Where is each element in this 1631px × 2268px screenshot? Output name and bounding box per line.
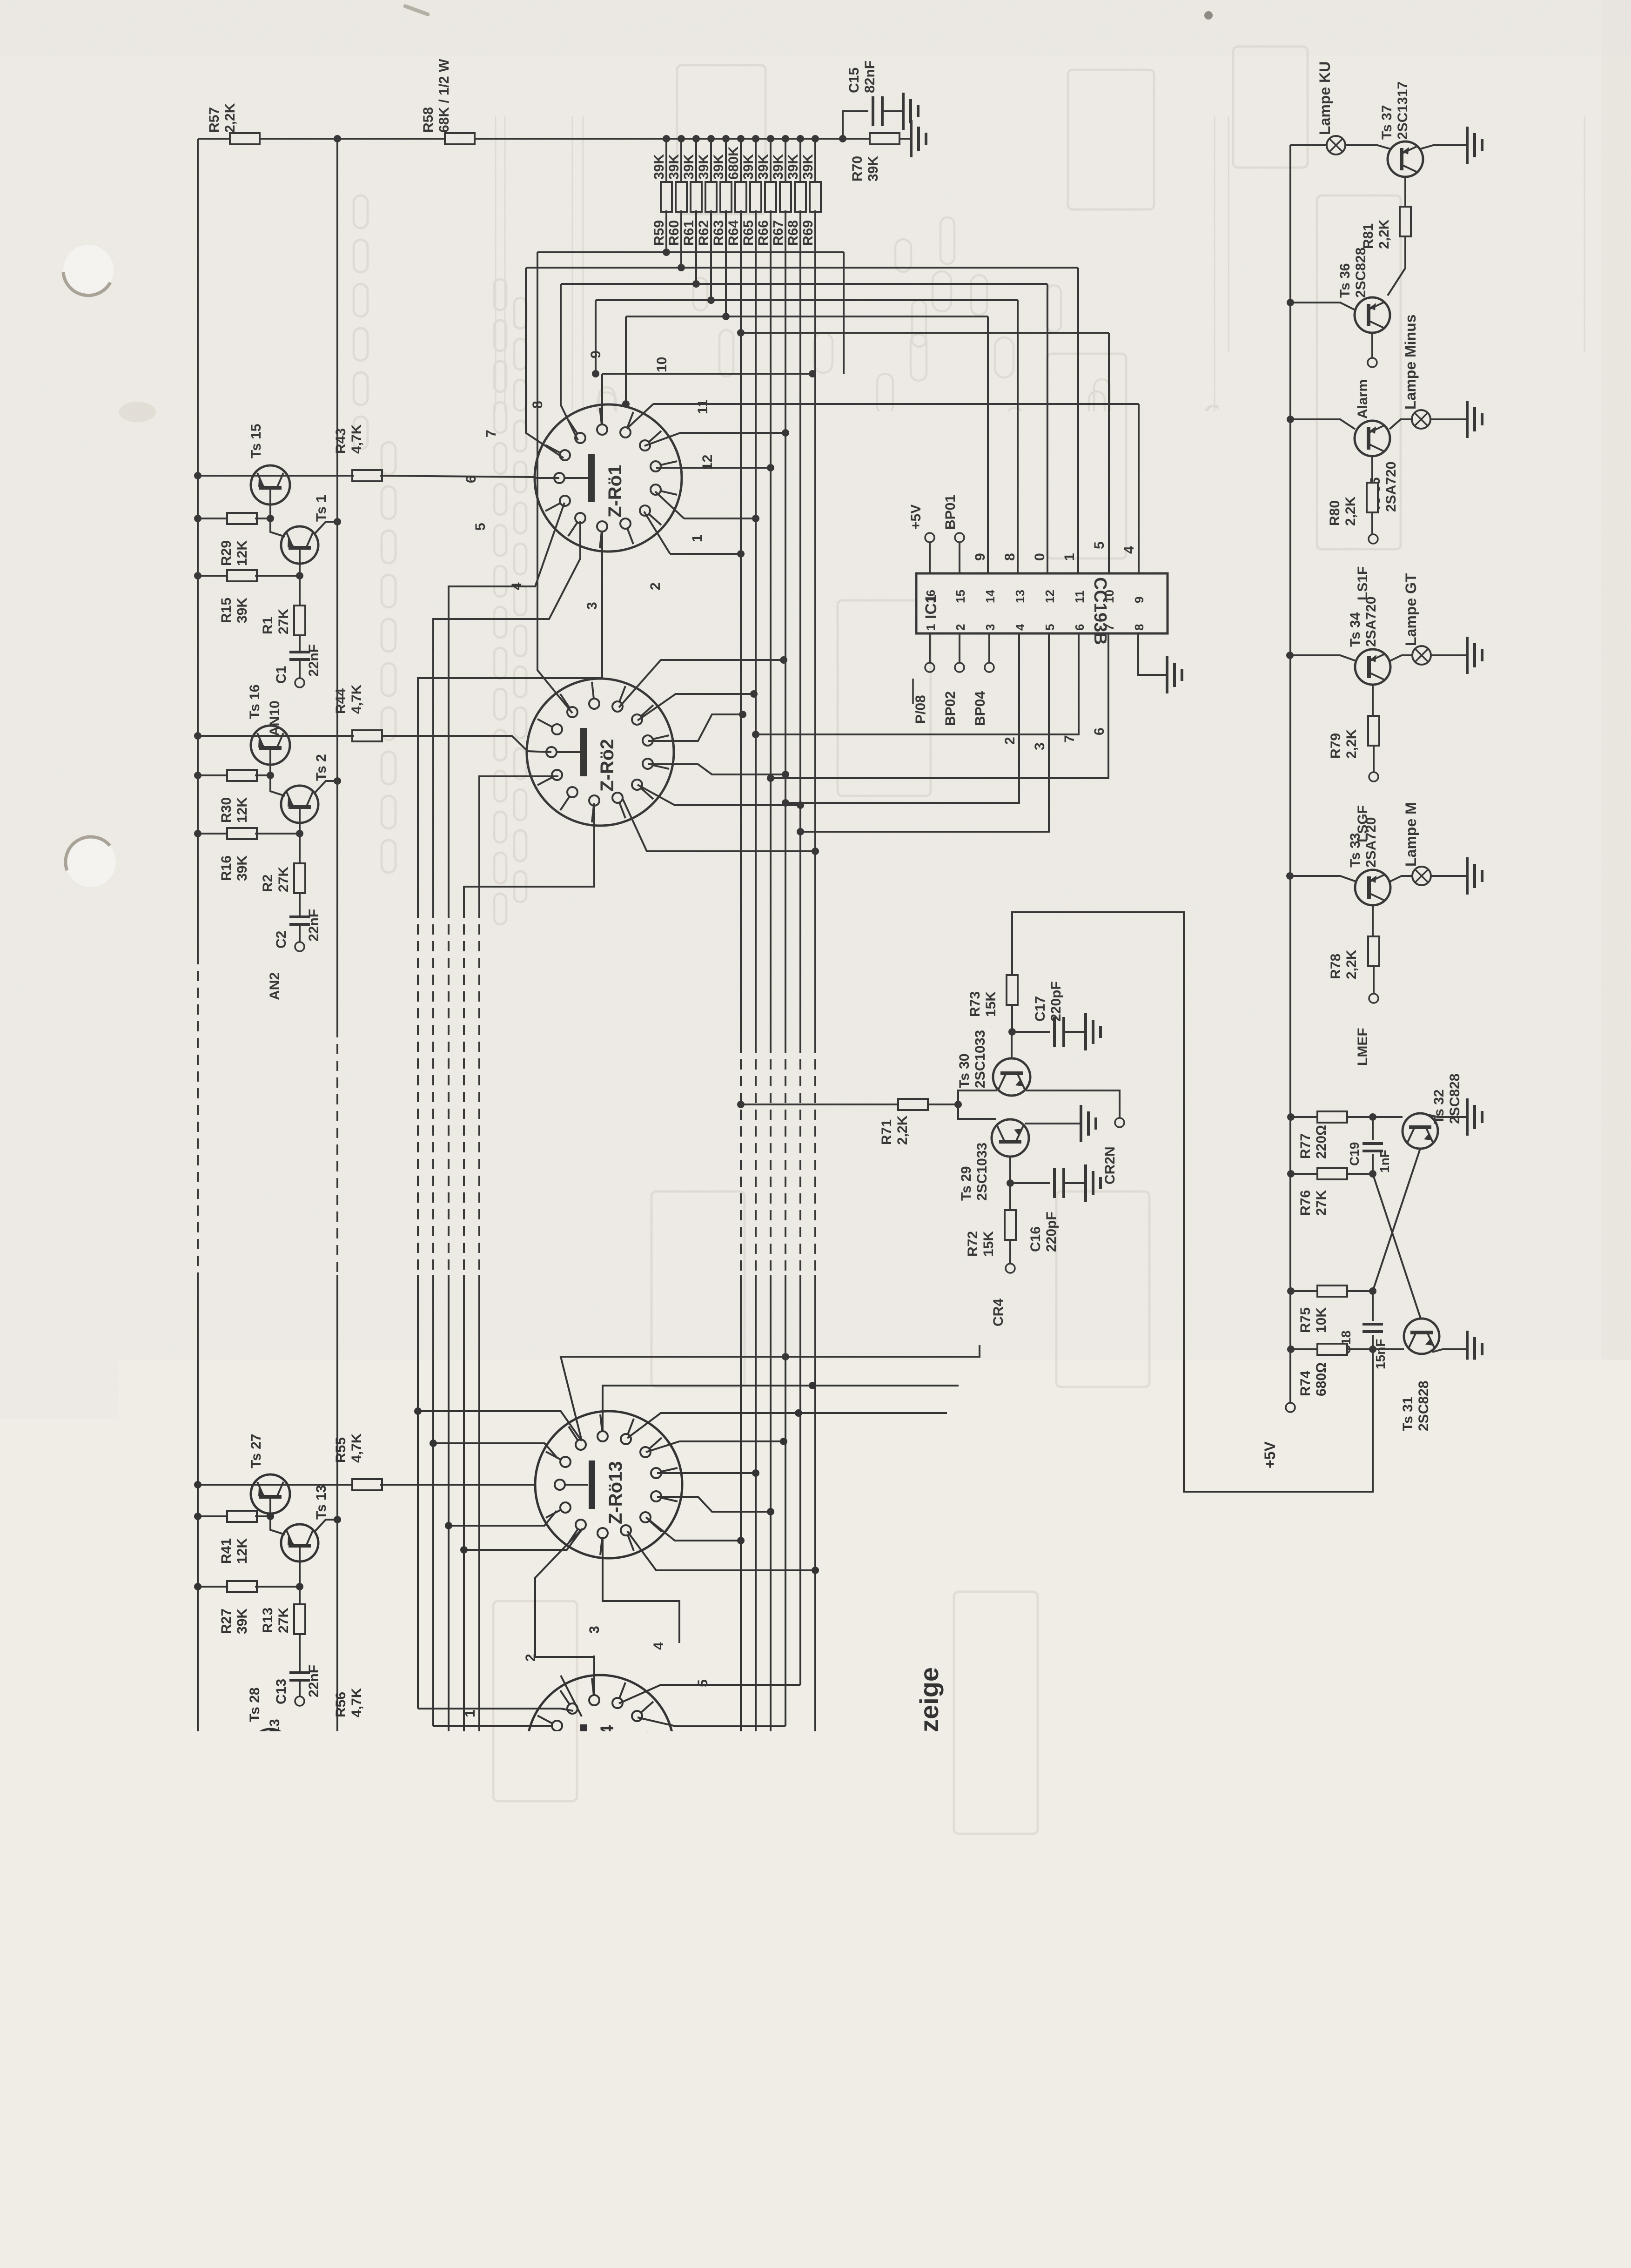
wire C15 to ground [882,110,902,112]
wire rail to R41 [194,1513,227,1520]
wire left bus x964 dashed [448,908,450,1275]
capacitor C15 [846,61,882,126]
transistor Q Ts30 [957,1030,1030,1096]
tube Z-Rö13 [535,1411,682,1558]
wire row Ts 16 [198,735,354,737]
wire Rö13 pin41 row [646,1438,787,1452]
wire rail to R27 [194,1583,227,1590]
wire rail to R29 [194,515,227,522]
wire R42 to Ts 14 [255,1783,285,1806]
ground Ts29 [1081,1105,1096,1142]
wire Rö13 pin14 row [657,1469,759,1477]
label Rö1 pin 10 [654,357,670,372]
resistor R42 [219,1778,257,1831]
label Rö1 pin 4 [509,582,524,590]
label Rö14 pin 7 [691,1807,707,1815]
label CD 700 Anzeige [914,1667,944,1862]
capacitor C17 [1033,981,1064,1047]
transistor Ts 13 [281,1485,329,1562]
wire Ts29 emitter [1007,1157,1014,1187]
resistor R68 [785,135,806,246]
wire Rö2 pin-41 row [638,785,804,809]
capacitor C19 [1347,1117,1392,1174]
wire second rail x725 [336,139,338,1801]
wire R77 to Ts32 [1347,1113,1403,1121]
tube Z-Rö1 [535,404,682,552]
lamp Lampe Minus [1402,315,1430,429]
resistor R77 [1298,1111,1347,1159]
resistor R74 [1298,1344,1347,1396]
resistor R14 [260,1876,305,1906]
table pin assignments [1004,1865,1373,2040]
node Ts36 bus [1287,299,1294,306]
wire IC pin5 out [797,633,1049,835]
wire bus to R76 [1291,1173,1317,1175]
label Ts 27 [248,1434,264,1469]
wire Rö14 pin5 row [638,1717,785,1726]
wire R41 to Ts 13 [255,1516,285,1534]
wire rail to R15 [194,572,227,579]
wire R56 to Rö14 [380,1739,551,1749]
wire wrap L5 [622,316,630,408]
wire Rö14 pin(.) row [638,1781,741,1843]
resistor R64 [726,135,746,246]
wire Ts 1 emitter [296,564,303,579]
wire Rö13 pin97 row [603,1382,959,1431]
wire R13 to C13 [299,1634,301,1673]
wire Rö1 pin4 drop [433,521,580,908]
wire C13 to AN13 [299,1680,301,1696]
wire rail to R28 [194,1838,227,1846]
label IC1 pin 7 bottom [1102,624,1116,631]
label Rö14 pin 2 [523,1654,538,1662]
ground Lampe Minus [1467,401,1482,438]
wire +5V lamp bus [1289,145,1291,1403]
resistor R15 [219,570,257,623]
wire Rö1 pin2 row [644,511,745,558]
wire Ts31 to ground [1432,1349,1466,1352]
wire Ts34 to R79 [1372,685,1374,716]
wire left bus x898 dashed [417,908,419,1275]
label IC1 pin 8 bottom [1132,624,1146,631]
wire Ts34 to lamp [1390,655,1412,661]
wire node to R1 [299,576,301,606]
label IC1 pin 6 bottom [1073,624,1087,631]
label transistor notes [1405,1571,1479,1865]
resistor R43 [333,424,382,481]
transistor Ts 28 [251,1729,290,1768]
resistor R66 [756,135,776,246]
wire R71 row [737,1101,898,1108]
label IC riser 5 [1092,541,1107,549]
resistor R28 [219,1837,257,1890]
ground C17 [1086,1013,1101,1050]
wire C2 to AN2 [299,924,301,942]
transistor Q Ts36 [1337,248,1390,333]
wire R28 to node [255,1841,300,1843]
label IC riser 8 [1002,553,1018,561]
node R77 bus [1287,1113,1295,1121]
label IC riser 4 [1121,546,1137,554]
label Rö1 pin 11 [695,399,711,414]
wire Rö13 pin69 row [627,1409,947,1438]
wire row Ts 15 [198,475,354,477]
wire cathode bus x1592 [740,210,742,1843]
resistor R70 [850,133,899,182]
transistor Ts 14 [281,1757,329,1834]
resistor R72 [965,1210,1016,1257]
wire Rö14 pin4 row [619,1685,800,1703]
wire Rö14 pin7 row [648,1761,756,1802]
wire bus to R74 [1291,1348,1317,1350]
capacitor C2 [274,909,322,949]
transistor Q Ts37 [1379,81,1423,177]
terminal AN10 [267,678,304,736]
wire IC pin1 P/08 [913,633,934,724]
label IC1 pin 2 bottom [953,624,967,631]
transistor Ts 1 [281,495,329,564]
node R76 right [1369,1170,1376,1178]
wire Ts37 to ground [1420,145,1466,149]
wire wrap L4 [592,300,599,377]
wire cathode bus x1656 [770,210,772,1769]
label IC1 pin 9 top [1132,597,1146,603]
wire Rö1 pin1 row [655,491,759,522]
wire R75 to node [1347,1287,1376,1295]
wire IC pin16 +5V [908,505,934,573]
resistor R59 [651,135,672,246]
wire R1 to C1 [299,635,301,652]
capacitor C14 [274,1919,322,1959]
capacitor C13 [274,1665,322,1704]
node R74 bus [1287,1346,1295,1353]
label IC1 pin 14 top [983,590,997,603]
wire bus L2 y575 [526,210,1078,573]
terminal Alarm [1355,358,1377,419]
resistor R56 [333,1688,382,1745]
wire IC pin4 out [782,633,1019,807]
wire node to R2 [299,834,301,863]
wire Rö13 pin125 row [561,1345,980,1440]
wire Rö2 anode row [380,736,551,752]
wire wrap L2 [526,268,564,458]
ground Ts37 [1467,127,1482,164]
label IC1 pin 10 top [1102,590,1116,603]
wire bus L3 y610 [561,210,1047,573]
wire row Ts 28 [198,1738,354,1740]
terminal +5V bus [1262,1403,1295,1468]
wire Rö2 pin-14 row [648,764,789,778]
label Rö14 pin 0 [466,1789,482,1797]
resistor R80 [1327,483,1378,526]
label Ts 28 [247,1688,262,1723]
wire R79 to LSGF [1373,746,1375,772]
wire Ts 2 emitter [296,823,303,837]
wire C17 ground [1064,1031,1084,1033]
label Ts 15 [248,424,264,459]
wire R72 to CR4 [1009,1240,1011,1264]
wire C16 branch [1010,1182,1050,1184]
wire left bus x997 dashed [463,908,465,1275]
resistor R75 [1298,1285,1347,1333]
node R74 right [1369,1346,1376,1353]
wire Ts35 to lamp [1389,419,1412,429]
wire Rö1 pin6 left [535,477,559,479]
label Rö14 pin 4 [651,1642,666,1650]
wire Ts33 to R78 [1372,905,1374,936]
wire Rö2 pin41 row [638,690,758,720]
wire Rö1 pin12 row [656,464,774,471]
wire Rö1 pin3 drop [418,532,602,908]
wire lamp GT ground [1431,654,1466,656]
wire left bus x931 dashed [432,908,434,1275]
label IC1 pin 13 top [1013,590,1027,603]
wire Rö2 pin-97 drop [464,803,594,908]
resistor R71 [879,1099,928,1145]
wire C15 branch [843,111,868,139]
wire R70 to ground [899,138,910,140]
wire Rö14 pin8 row [601,1642,815,1882]
node rail Ts 15 [194,472,201,479]
wire Ts35 to R80 [1371,456,1373,483]
wire left bus x964 lower [445,1275,557,1771]
wire R73 to C17 node [1008,1005,1016,1036]
wire R55 to Rö13 [380,1484,535,1486]
tube Z-Rö2 [527,679,674,826]
wire Ts30 emitter to CR2N [1026,1090,1120,1118]
resistor R60 [666,135,687,246]
wire Ts32 to ground [1428,1115,1466,1117]
label Rö1 pin 12 [700,455,715,470]
wire C17 branch [1012,1031,1050,1033]
resistor R57 [207,103,260,144]
wire Rö1 pin9 row [602,370,816,424]
label IC1 pin 16 top [924,590,938,603]
label IC1 pin 12 top [1043,590,1057,603]
wire R2 to C2 [299,893,301,917]
wire node to R13 [299,1587,301,1604]
terminal AN2 [267,942,304,1000]
resistor R73 [967,975,1018,1017]
wire left bus x1030 dashed [478,908,480,1275]
wire Ts 16 to R30 [267,765,274,779]
resistor R61 [681,135,702,246]
resistor R44 [333,684,382,741]
wire bus to Ts36 [1290,303,1355,310]
wire Rö2 pin69 row [619,656,787,707]
label Rö1 pin 2 [648,582,663,590]
wire cathode bus x1752 [814,210,816,1642]
wire R74 to Ts31 [1347,1348,1404,1350]
node Ts34 bus [1286,652,1294,659]
wire bus to Ts34 [1290,655,1356,661]
ground Ts31 [1467,1331,1482,1368]
resistor R1 [260,606,305,635]
wire bus L4 y645 [596,210,1018,573]
wire IC pin2 BP02 [943,633,964,726]
wire left bus x1030 lower [479,1275,583,1834]
resistor R13 [260,1604,305,1634]
wire rail to R30 [194,772,227,779]
wire Rö2 pin14 row [648,711,746,741]
transistor Q Ts35 [1355,421,1399,512]
resistor R79 [1328,716,1379,759]
wire Ts29 to ground [1025,1123,1080,1124]
wire bus to R75 [1291,1290,1317,1292]
wire IC pin6 out [752,633,1079,743]
wire Rö14 pin3 row [593,1656,595,1695]
wire R16 to node [255,833,300,835]
wire Rö13 pin-125 drop [535,1529,594,1695]
wire lamp M ground [1431,875,1466,877]
wire R71 to pair [928,1090,997,1119]
wire Ts 13 collector [315,1516,341,1532]
wire rail to R16 [194,830,227,837]
node rail Ts 16 [194,732,201,740]
ground C16 [1086,1164,1101,1202]
wire Ts 1 collector [315,518,341,534]
wire VBB rail [197,139,199,2019]
node rail Ts 27 [194,1481,201,1488]
wire wrap L1 [537,252,572,713]
ground after R70 [911,120,926,157]
node rail Ts 28 [194,1736,201,1743]
resistor R78 [1328,936,1379,979]
label Rö14 pin 1 [463,1709,478,1717]
wire lamp to Ts37 [1345,145,1390,149]
lamp Lampe M [1403,802,1431,885]
resistor R81 [1361,207,1411,249]
wire to R70 [843,138,870,140]
label page number 33 [1495,2163,1528,2196]
resistor R16 [219,828,257,881]
terminal LMEF [1355,994,1378,1066]
label IC1 pin 11 top [1073,591,1087,604]
wire R29 to Ts 1 [255,518,285,537]
resistor R67 [771,135,791,246]
resistor R55 [333,1433,382,1490]
label Rö1 pin 6 [463,475,479,483]
wire rail to R42 [194,1780,227,1787]
wire Rö13 pin-97 drop [603,1539,679,1643]
transistor Ts 2 [281,754,329,823]
ground Lampe M [1467,857,1482,895]
label Rö1 pin 1 [690,534,705,542]
transistor Ts 15 [251,465,290,505]
capacitor C1 [274,644,322,684]
resistor R30 [219,770,257,823]
terminal LSIF [1355,534,1378,600]
wire C1 to AN10 [299,660,301,678]
wire Ts 2 collector [315,777,341,793]
wire Rö13 pin-14 row [657,1497,774,1515]
paper grain [0,0,0,0]
label Rö1 pin 8 [530,401,545,409]
wire Ts 27 to R41 [267,1513,274,1520]
IC U1 CC193B body [916,573,1168,645]
wire wrap L3 [561,284,578,440]
ground Ts32 [1467,1098,1482,1136]
resistor R41 [219,1511,257,1564]
resistor R58 [421,59,475,144]
wire left bus x997 lower [460,1275,583,1791]
resistor R65 [741,135,761,246]
label Rö1 pin 7 [483,430,499,437]
wire IC pin7 out [767,633,1108,782]
resistor R63 [711,135,732,246]
transistor Q Ts34 [1348,597,1390,685]
label IC riser 9 [973,553,988,561]
wire row Ts 27 [198,1484,354,1486]
wire R27 to node [255,1586,300,1588]
resistor R29 [219,513,257,566]
wire cross up [1373,1149,1420,1291]
wire Ts 15 to R29 [267,505,274,522]
node R57/R58 junction [334,135,341,142]
lamp Lampe GT [1403,573,1431,665]
terminal LSGF [1355,772,1378,842]
transistor Q Ts33 [1348,817,1390,905]
label IC riser 1 [1062,553,1077,561]
wire lamp Minus ground [1430,418,1466,420]
wire Rö2 pin-69 row [623,799,819,855]
wire Ts29 to R72 [1009,1183,1011,1210]
label Rö14 pin (.) [639,1851,655,1864]
label Rö1 pin 5 [473,523,488,531]
ground IC pin8 [1167,656,1182,693]
wire Ts33 to lamp [1390,876,1412,882]
wire Rö13 pin-69 row [627,1531,819,1574]
wire R43 to Rö1 [270,476,535,477]
wire cathode bus x1720 [799,210,801,1685]
terminal CR2N [1102,1118,1124,1184]
wire IC pin8 ground [1138,633,1166,675]
terminal AN14 [267,1961,304,2019]
wire node to R14 [299,1842,301,1876]
wire pin9 IC riser y868 [653,404,1139,573]
wire cathode bus x1624 [755,210,757,1802]
node R76 bus [1287,1170,1295,1178]
wire bus L5 y680 [626,210,988,573]
wire Rö14 pin2 wrap [561,1676,582,1716]
wire bus to Ts33 [1290,876,1356,882]
label Rö1 pin 9 [588,350,604,358]
wire C16 ground [1064,1182,1084,1184]
label IC1 pin 5 bottom [1043,624,1057,631]
label Ts 16 [247,685,262,720]
wire R73 top loop [1012,912,1373,1492]
terminal CR4 [991,1264,1015,1326]
wire bus to R77 [1291,1116,1317,1118]
capacitor C16 [1028,1168,1064,1252]
capacitor C18 [1339,1291,1388,1369]
label IC1 pin 1 bottom [924,624,938,631]
resistor R27 [219,1581,257,1634]
label Rö14 pin 6 [707,1735,722,1743]
label IC1 pin 3 bottom [983,624,997,631]
label Rö1 pin 3 [584,602,600,610]
transistor Q Ts29 [959,1119,1029,1201]
label IC riser 0 [1032,553,1047,561]
resistor R2 [260,863,305,893]
wire cross down [1373,1174,1421,1319]
terminal VBB [168,2019,203,2093]
wire Rö13 pin-41 row [646,1517,745,1544]
node Ts33 bus [1286,872,1294,880]
resistor R69 [800,135,821,246]
wire Ts 28 to R42 [267,1768,274,1787]
wire IC pin3 BP04 [973,633,994,726]
